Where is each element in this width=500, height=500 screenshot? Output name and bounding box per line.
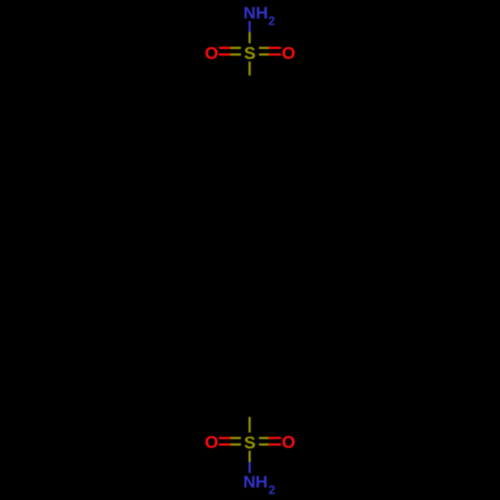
svg-text:S: S (244, 43, 256, 63)
double bond S=O bottom-right, line 2 (olive S half) (259, 443, 270, 445)
svg-text:H: H (255, 473, 267, 492)
bond S-N bottom (olive S half) (249, 451, 251, 462)
svg-text:N: N (243, 4, 255, 23)
double bond S=O bottom-left, line 1 (red O half) (220, 437, 231, 439)
svg-text:O: O (205, 43, 219, 63)
double bond S=O top-left, line 2 (red O half) (220, 53, 231, 55)
bond N-S top (olive S half) (249, 32, 251, 43)
double bond S=O bottom-right, line 1 (olive S half) (259, 437, 270, 439)
double bond S=O bottom-left, line 2 (olive S half) (230, 443, 241, 445)
double bond S=O top-right, line 1 (olive S half) (259, 47, 270, 49)
svg-text:O: O (282, 432, 296, 452)
double bond S=O top-left, line 1 (olive S half) (230, 47, 241, 49)
double bond S=O top-right, line 1 (red O half) (270, 47, 281, 49)
double bond S=O top-right, line 2 (red O half) (270, 53, 281, 55)
double bond S=O top-right, line 2 (olive S half) (259, 53, 270, 55)
bond S-C top stub (olive S half, carbon half invisible) (249, 62, 251, 76)
svg-text:H: H (256, 4, 268, 23)
bond N-S top (blue N half) (249, 21, 251, 32)
double bond S=O bottom-left, line 1 (olive S half) (230, 437, 241, 439)
bond S-N bottom (blue N half) (249, 462, 251, 473)
nitrogen label NH2 (top) (243, 4, 275, 28)
svg-text:S: S (244, 433, 256, 453)
nitrogen label NH2 (bottom) (243, 473, 275, 497)
svg-text:O: O (282, 43, 296, 63)
double bond S=O bottom-left, line 2 (red O half) (220, 443, 231, 445)
double bond S=O top-left, line 1 (red O half) (220, 47, 231, 49)
svg-text:N: N (243, 473, 255, 492)
double bond S=O bottom-right, line 1 (red O half) (270, 437, 281, 439)
svg-text:2: 2 (268, 14, 275, 28)
bond C-S bottom stub (olive S half, carbon half invisible) (249, 417, 251, 433)
svg-text:2: 2 (269, 483, 276, 497)
double bond S=O top-left, line 2 (olive S half) (230, 53, 241, 55)
svg-text:O: O (205, 432, 219, 452)
double bond S=O bottom-right, line 2 (red O half) (270, 443, 281, 445)
